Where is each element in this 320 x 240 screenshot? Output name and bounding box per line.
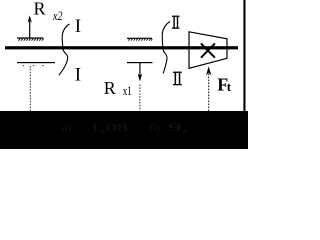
bearing A upper hatching	[19, 39, 44, 41]
label R_x1	[104, 78, 132, 98]
force arrow R_x2 (up)	[28, 15, 32, 38]
gear cross mark X	[201, 43, 215, 57]
bearing B upper hatching	[128, 39, 152, 41]
label R_x2	[34, 0, 63, 23]
right border line	[243, 0, 245, 111]
force arrow F_t (up) with dashed leader	[206, 66, 212, 111]
leader dashed line below bearing A	[29, 66, 31, 111]
gear (bevel pinion) trapezoid	[189, 32, 227, 69]
bearing A lower support line	[17, 62, 55, 63]
svg-text:x2: x2	[52, 8, 63, 23]
bearing A upper support line	[17, 37, 44, 38]
section line II	[162, 22, 170, 74]
black caption band	[0, 111, 248, 149]
label F_t	[217, 75, 232, 95]
force arrow R_x1 (down)	[138, 63, 143, 82]
svg-text:б): б)	[150, 120, 160, 134]
leader dashed line below bearing B	[139, 85, 141, 112]
svg-text:1,08: 1,08	[89, 120, 128, 134]
svg-text:а): а)	[62, 120, 71, 134]
svg-text:R: R	[34, 0, 46, 19]
section line I	[59, 24, 70, 75]
svg-text:t: t	[227, 79, 232, 94]
label II upper	[172, 16, 179, 29]
bearing A lower dots	[23, 65, 44, 66]
bearing B upper support line	[127, 38, 152, 39]
svg-text:I: I	[75, 16, 81, 37]
bearing B lower support line	[127, 62, 153, 63]
svg-text:I: I	[75, 64, 81, 85]
svg-text:9,: 9,	[168, 120, 188, 134]
shaft (beam axis)	[5, 46, 238, 49]
faint caption text in band	[62, 120, 188, 134]
svg-text:R: R	[104, 78, 116, 98]
label II lower	[173, 72, 182, 86]
svg-text:x1: x1	[123, 83, 132, 98]
